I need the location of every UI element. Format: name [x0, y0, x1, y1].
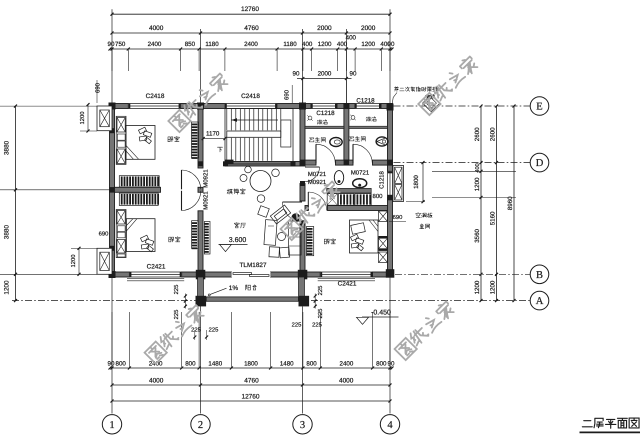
dims 225 at balcony column grid3 [292, 286, 324, 329]
svg-text:225: 225 [317, 286, 324, 296]
svg-text:TLM1827: TLM1827 [240, 262, 267, 269]
svg-text:2000: 2000 [318, 71, 332, 78]
svg-text:C2421: C2421 [147, 264, 166, 271]
svg-text:1200: 1200 [4, 280, 11, 295]
watermark 4 [145, 303, 206, 363]
svg-text:400: 400 [337, 41, 348, 48]
outer wall bottom [110, 272, 393, 277]
label 690 AC slab [389, 214, 406, 222]
label shower-left [317, 120, 327, 124]
svg-text:1200: 1200 [318, 41, 332, 48]
grid bubble B [530, 265, 549, 284]
svg-text:690: 690 [393, 214, 403, 221]
svg-text:M0921: M0921 [308, 179, 327, 186]
svg-text:-0.450: -0.450 [371, 310, 391, 317]
door M0921 bedroom2 [182, 191, 201, 211]
svg-text:1200: 1200 [361, 41, 375, 48]
note second decoration [392, 87, 437, 103]
svg-text:800: 800 [372, 193, 383, 200]
outer wall top [110, 104, 393, 109]
diamond symbol [423, 94, 440, 111]
basin bold vanity [353, 179, 367, 188]
svg-text:1200: 1200 [70, 255, 77, 268]
grid bubble E [530, 97, 549, 116]
label C1218 top window [356, 97, 375, 104]
room label living room [234, 223, 245, 228]
left dim 1200 bottom flue [70, 247, 97, 276]
room label chess room [227, 189, 245, 195]
balcony column grid3 [299, 296, 310, 307]
svg-text:4760: 4760 [244, 25, 259, 32]
dimension row bottom-1 window offsets [108, 312, 395, 370]
dimension row top-2 bays 4000 4760 2000 2000 [111, 25, 392, 104]
interior wall grid3 segs [300, 109, 305, 273]
svg-text:90: 90 [108, 41, 115, 48]
cabinet grid2 east [204, 222, 210, 255]
dims 225 at balcony column grid2 [173, 285, 219, 340]
dimension row bottom-3 overall 12760 [111, 393, 392, 402]
svg-text:1200: 1200 [474, 177, 481, 191]
grid bubble A [530, 291, 549, 310]
svg-text:750: 750 [115, 41, 126, 48]
stair label 1170 [202, 130, 227, 140]
shower head bath-right [350, 115, 356, 121]
grid bubble D [530, 153, 549, 172]
flue left-top [97, 106, 112, 131]
svg-text:400: 400 [302, 41, 313, 48]
right dim chain inner [474, 105, 483, 303]
shower partition bath-right [349, 126, 388, 128]
svg-text:2400: 2400 [244, 41, 258, 48]
svg-text:2400: 2400 [148, 41, 162, 48]
svg-text:C2418: C2418 [241, 93, 260, 100]
grid bubble 4 [380, 415, 399, 434]
svg-text:M0721: M0721 [351, 170, 370, 177]
svg-text:1200: 1200 [489, 280, 496, 294]
svg-text:1800: 1800 [244, 360, 258, 367]
svg-text:C2418: C2418 [146, 93, 165, 100]
svg-text:M0921: M0921 [202, 169, 209, 188]
left dim chain [4, 105, 18, 303]
svg-text:690: 690 [95, 82, 102, 93]
svg-text:4760: 4760 [244, 377, 259, 384]
window C1218 bath-left [311, 104, 337, 109]
flue right AC [393, 166, 404, 202]
room label bedroom3 [324, 239, 335, 244]
interior wall bath divider [344, 109, 349, 161]
svg-text:E: E [536, 102, 542, 113]
dimension row bottom-2 bays [111, 377, 392, 386]
grid bubble 1 [102, 415, 121, 434]
window C2421 bedroom2 [127, 272, 184, 281]
label M0721 M0921 bedroom3 [308, 171, 327, 186]
svg-text:2000: 2000 [361, 25, 376, 32]
dimension row top-4 bath bay 2000 [293, 71, 357, 104]
svg-text:1180: 1180 [283, 41, 297, 48]
svg-text:D: D [536, 158, 544, 169]
svg-text:225: 225 [312, 322, 322, 329]
balcony slope note 1% yangtai [208, 285, 256, 296]
door M0721 bath-left [316, 144, 335, 163]
right extension lines [432, 171, 516, 197]
balcony rail east [299, 277, 305, 296]
watermark 5 [395, 300, 456, 360]
shower head bath-left [307, 115, 313, 121]
svg-text:1480: 1480 [208, 360, 222, 367]
grid extension lines to bottom bubbles [112, 277, 390, 414]
basin pedestal vanity [334, 171, 343, 185]
svg-text:C1218: C1218 [379, 171, 386, 189]
svg-text:1480: 1480 [280, 360, 294, 367]
toilet bath-right [376, 137, 388, 146]
interior wall stair bottom [225, 162, 300, 167]
cabinet grid2 west [192, 221, 199, 250]
svg-text:690: 690 [99, 231, 109, 238]
bed bedroom2 [116, 210, 155, 258]
label C1218 rotated right wall [379, 171, 386, 189]
svg-text:225: 225 [191, 327, 201, 334]
door M0721 vanity [305, 167, 320, 182]
bed bedroom1 [116, 116, 155, 164]
level marker -0.450 outside [357, 310, 399, 325]
svg-text:2600: 2600 [489, 127, 496, 141]
svg-text:225: 225 [173, 310, 180, 320]
flue left-bottom [97, 248, 112, 274]
outer wall left [110, 104, 115, 278]
label M0721 bath-right [351, 170, 370, 177]
interior wall grid2 lower [198, 211, 203, 272]
stair label down [217, 147, 222, 152]
grid line E [394, 105, 531, 107]
svg-text:1170: 1170 [206, 130, 220, 137]
svg-text:M0921: M0921 [202, 191, 209, 210]
sofa and tv group living room [258, 205, 301, 258]
svg-text:400: 400 [346, 35, 357, 42]
svg-text:3880: 3880 [4, 225, 11, 240]
room label bedroom1 [168, 136, 179, 141]
svg-text:1%: 1% [229, 285, 239, 292]
shower partition bath-left [305, 126, 344, 128]
right dim 1800 AC panel [406, 161, 425, 203]
dimension row top-3 window offsets [108, 35, 395, 72]
label shower-right [366, 117, 376, 121]
wardrobe bedroom2 [119, 193, 159, 205]
label M0921 pair rotated [202, 169, 209, 210]
title second floor plan [580, 418, 640, 432]
window C1218 bedroom3 right wall [388, 171, 393, 197]
svg-text:1200: 1200 [474, 280, 481, 294]
room label bath-left [309, 138, 325, 143]
dresser bedroom3 right wall [379, 236, 388, 251]
dim 690 stair well [284, 85, 293, 103]
label AC panel [416, 213, 432, 218]
svg-text:225: 225 [292, 322, 302, 329]
door TLM1827 balcony sliding [231, 272, 270, 277]
left extension lines [0, 106, 110, 274]
svg-text:5160: 5160 [489, 211, 496, 225]
grid line D [394, 162, 531, 164]
svg-text:1180: 1180 [205, 41, 219, 48]
svg-text:A: A [536, 296, 544, 307]
svg-text:2000: 2000 [317, 25, 332, 32]
label C2421 bedroom2 [147, 264, 166, 271]
svg-text:2: 2 [198, 420, 203, 431]
svg-text:4000: 4000 [339, 377, 354, 384]
svg-text:3.600: 3.600 [229, 237, 247, 244]
balcony rail front [206, 297, 298, 301]
label C2421 bedroom3 [338, 280, 357, 287]
window C2418 bedroom1 [128, 104, 180, 109]
interior wall D bathrooms [305, 160, 388, 165]
svg-text:4000: 4000 [149, 377, 164, 384]
label 800 [372, 193, 383, 200]
nightstand bedroom3 top [379, 211, 388, 222]
structural columns [109, 103, 395, 280]
svg-text:800: 800 [116, 360, 127, 367]
svg-text:8960: 8960 [507, 196, 514, 210]
svg-text:3880: 3880 [4, 140, 11, 155]
svg-text:C2421: C2421 [338, 280, 357, 287]
bed bedroom3 [350, 220, 379, 253]
window C2421 bedroom3 [318, 272, 375, 281]
balcony column grid2 [196, 296, 207, 307]
balcony rail west [198, 277, 204, 296]
watermark 1 [168, 72, 229, 132]
svg-text:B: B [536, 270, 543, 281]
room label bedroom2 [169, 237, 180, 242]
round table chess room [240, 166, 279, 202]
svg-text:C1218: C1218 [316, 110, 335, 117]
laundry counter vanity area [327, 188, 372, 205]
svg-text:690: 690 [284, 89, 291, 100]
svg-text:1: 1 [109, 420, 114, 431]
left dim 1200 top flue [79, 103, 97, 132]
svg-text:800: 800 [376, 360, 387, 367]
door M0921 bedroom1 [182, 170, 201, 189]
label TLM1827 [240, 262, 267, 269]
svg-text:1800: 1800 [413, 175, 420, 189]
nightstand bedroom3 bottom [379, 252, 388, 263]
label C2418 stair [241, 93, 260, 100]
door M0921 bedroom3 [283, 202, 303, 222]
svg-text:90: 90 [388, 41, 395, 48]
svg-text:2600: 2600 [474, 127, 481, 141]
interior wall bedroom divider [115, 187, 204, 192]
cabinet bedroom1 grid2 [192, 122, 199, 159]
watermark 3 [281, 180, 342, 240]
svg-text:M0721: M0721 [308, 171, 327, 178]
svg-text:225: 225 [209, 327, 219, 334]
toilet bath-left [330, 138, 342, 147]
stair [225, 109, 293, 165]
door M0721 bath-right [353, 144, 372, 163]
dim 690 top-left flue [95, 80, 102, 103]
svg-text:225: 225 [317, 309, 324, 319]
room label bath-right [349, 137, 365, 142]
label C1218 bath-left [316, 110, 335, 117]
svg-text:225: 225 [173, 285, 180, 295]
wardrobe bedroom1 [119, 176, 159, 187]
svg-text:800: 800 [306, 360, 317, 367]
svg-text:12760: 12760 [241, 6, 259, 13]
window C1218 bath-right [355, 104, 381, 109]
svg-text:4000: 4000 [149, 25, 164, 32]
watermark 2 [418, 55, 479, 115]
svg-text:90: 90 [108, 360, 115, 367]
svg-text:3560: 3560 [474, 228, 481, 242]
svg-text:90: 90 [293, 71, 300, 78]
interior wall bedroom3 top [305, 206, 388, 211]
window C2418 stair [225, 104, 277, 109]
svg-text:800: 800 [185, 360, 196, 367]
level marker 3.600 living room [219, 237, 248, 252]
label metal mesh [420, 224, 430, 229]
svg-text:12760: 12760 [241, 393, 259, 400]
interior wall grid2 upper [198, 109, 203, 169]
label 690 bedroom2 [99, 231, 109, 238]
svg-text:1200: 1200 [79, 112, 86, 125]
wardrobe bedroom3 [307, 227, 314, 256]
right dim chain middle [489, 105, 498, 303]
svg-text:3: 3 [300, 420, 305, 431]
label C2418 bedroom1 [146, 93, 165, 100]
svg-text:4: 4 [387, 420, 393, 431]
grid bubble 2 [191, 415, 210, 434]
right dim chain overall 8960 [507, 105, 516, 303]
svg-text:90: 90 [350, 71, 357, 78]
svg-text:2400: 2400 [340, 360, 354, 367]
grid bubble 3 [293, 415, 312, 434]
grid line B [395, 273, 530, 275]
dimension row top-1 overall 12760 [111, 6, 392, 104]
outer wall right [388, 104, 393, 278]
svg-text:C1218: C1218 [356, 97, 375, 104]
svg-text:90: 90 [388, 360, 395, 367]
svg-text:850: 850 [185, 41, 196, 48]
grid line A axis full [12, 300, 530, 302]
door M0921 bedroom3 entry [308, 192, 326, 211]
